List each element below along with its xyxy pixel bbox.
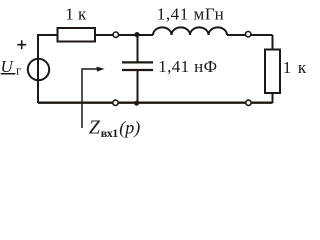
svg-text:(p): (p) [119,118,140,139]
svg-text:1 к: 1 к [283,58,308,77]
svg-text:1 к: 1 к [65,5,87,24]
svg-text:вх1: вх1 [101,126,118,140]
svg-text:1,41 нФ: 1,41 нФ [158,57,217,76]
svg-text:1,41 мГн: 1,41 мГн [157,5,224,24]
svg-text:Z: Z [89,116,101,138]
svg-text:г: г [16,63,21,78]
